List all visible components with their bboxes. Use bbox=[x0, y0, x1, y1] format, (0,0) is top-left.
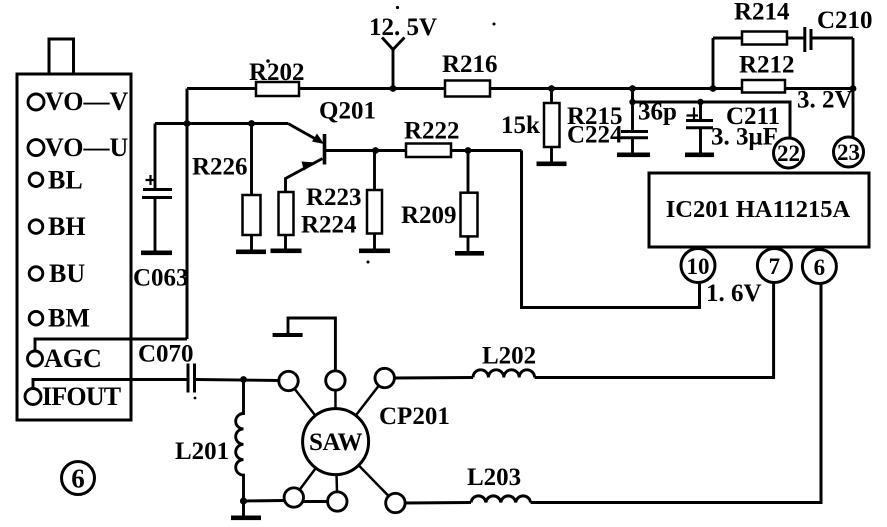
pin 23 bbox=[834, 137, 864, 167]
resistor R202 bbox=[256, 82, 299, 96]
ground 15k bbox=[537, 162, 567, 167]
IC201 box bbox=[649, 173, 869, 247]
svg-text:R214: R214 bbox=[734, 0, 790, 26]
svg-text:36p: 36p bbox=[638, 99, 677, 126]
svg-text:C063: C063 bbox=[133, 265, 189, 292]
svg-text:R224: R224 bbox=[301, 212, 357, 239]
terminal BH bbox=[29, 220, 43, 234]
SAW terminal bottom-left bbox=[284, 488, 303, 507]
svg-text:VO—V: VO—V bbox=[45, 87, 128, 116]
terminal BL bbox=[29, 173, 43, 187]
svg-text:3. 2V: 3. 2V bbox=[797, 87, 853, 114]
node dot second row left bbox=[629, 99, 635, 105]
wire AGC row bbox=[35, 339, 187, 352]
terminal VO-U bbox=[28, 140, 44, 156]
Q201 bar bbox=[323, 134, 327, 165]
terminal IFOUT bbox=[25, 389, 41, 405]
capacitor C211 3.3uF bbox=[699, 102, 702, 120]
inductor L203 bbox=[471, 496, 531, 503]
node dot R226 top bbox=[248, 120, 255, 127]
resistor R224 bbox=[279, 192, 294, 235]
SAW terminal top-left bbox=[279, 371, 298, 390]
svg-text:BH: BH bbox=[48, 212, 86, 241]
svg-text:R223: R223 bbox=[306, 184, 362, 211]
wire C070 to SAW bbox=[196, 380, 280, 381]
svg-text:22: 22 bbox=[777, 141, 800, 166]
node dot C224 bbox=[629, 85, 636, 92]
wire collector row bbox=[325, 149, 406, 152]
resistor R222 bbox=[406, 144, 451, 158]
svg-text:L201: L201 bbox=[175, 438, 229, 465]
resistor R216 bbox=[445, 81, 490, 97]
wire pin6 to SAW bottom-right bbox=[405, 501, 471, 505]
resistor 15k bbox=[550, 89, 553, 104]
ground R223 bbox=[359, 249, 390, 254]
wire R214 row bbox=[713, 37, 742, 40]
node dot L201 top bbox=[240, 376, 247, 383]
svg-text:R226: R226 bbox=[192, 154, 248, 181]
Q201 emitter diagonal with arrow bbox=[286, 159, 323, 193]
svg-text:C070: C070 bbox=[138, 341, 194, 368]
resistor R212 bbox=[742, 80, 785, 93]
wire feedback left vertical bbox=[712, 38, 715, 89]
svg-text:6: 6 bbox=[71, 464, 85, 494]
svg-text:1. 6V: 1. 6V bbox=[706, 280, 762, 307]
capacitor C063 bbox=[154, 124, 157, 189]
svg-text:7: 7 bbox=[769, 254, 781, 279]
svg-text:Q201: Q201 bbox=[319, 98, 376, 125]
wire top rail bbox=[187, 87, 853, 90]
connector tab bbox=[49, 39, 74, 74]
node dot L201 bottom bbox=[240, 497, 247, 504]
ground R209 bbox=[455, 251, 484, 256]
svg-text:VO—U: VO—U bbox=[45, 133, 128, 162]
node dot R209 top bbox=[465, 147, 472, 154]
pin 7 bbox=[757, 249, 791, 283]
resistor R214 bbox=[742, 32, 787, 45]
svg-text:R202: R202 bbox=[249, 59, 305, 86]
resistor R226 bbox=[250, 124, 253, 196]
terminal VO-V bbox=[28, 94, 44, 110]
svg-text:10: 10 bbox=[687, 254, 710, 279]
svg-text:3. 3μF: 3. 3μF bbox=[711, 124, 778, 151]
ground R226 bbox=[236, 250, 266, 255]
node dot 15k bbox=[548, 85, 555, 92]
node dot base-left bbox=[184, 120, 191, 127]
svg-text:IC201 HA11215A: IC201 HA11215A bbox=[666, 196, 851, 223]
inductor L202 bbox=[473, 370, 535, 378]
wire to pin 10 bbox=[522, 151, 700, 308]
svg-text:BL: BL bbox=[48, 166, 83, 195]
ground C211 bbox=[685, 153, 714, 158]
ground L201 bbox=[242, 501, 245, 516]
svg-text:L203: L203 bbox=[467, 464, 521, 491]
svg-text:C210: C210 bbox=[817, 7, 873, 34]
capacitor C210 bbox=[803, 27, 806, 52]
SAW spokes bbox=[289, 378, 396, 503]
SAW terminal bottom-mid bbox=[328, 492, 347, 511]
terminal BM bbox=[29, 311, 43, 325]
node dot C211 top bbox=[697, 99, 703, 105]
terminal AGC bbox=[28, 351, 43, 366]
svg-text:6: 6 bbox=[814, 255, 826, 280]
svg-text:12. 5V: 12. 5V bbox=[369, 14, 437, 41]
supply 12.5V arrow bbox=[382, 38, 405, 50]
svg-text:C224: C224 bbox=[567, 122, 623, 149]
svg-text:R209: R209 bbox=[401, 202, 457, 229]
scan specks bbox=[396, 6, 399, 9]
SAW filter CP201 body bbox=[303, 409, 369, 475]
svg-text:23: 23 bbox=[837, 140, 860, 165]
node dot right feedback bbox=[850, 85, 857, 92]
terminal BU bbox=[29, 267, 43, 281]
wire second row bbox=[633, 102, 791, 139]
capacitor C224 bbox=[631, 89, 634, 131]
svg-text:BM: BM bbox=[48, 304, 90, 333]
connector J1 box bbox=[17, 74, 131, 420]
SAW terminal top-mid bbox=[326, 371, 345, 390]
wire IFOUT row bbox=[33, 380, 187, 390]
Q201 base diagonal bbox=[288, 124, 320, 142]
svg-text:15k: 15k bbox=[501, 112, 540, 139]
ground C224 bbox=[617, 153, 650, 158]
resistor R223 bbox=[373, 151, 376, 191]
resistor R209 bbox=[467, 151, 470, 193]
SAW case ground bbox=[288, 318, 335, 372]
svg-text:AGC: AGC bbox=[44, 344, 102, 373]
svg-text:SAW: SAW bbox=[309, 429, 363, 456]
wire feedback right vertical bbox=[852, 38, 855, 138]
svg-text:IFOUT: IFOUT bbox=[42, 382, 121, 411]
ground C063 bbox=[141, 251, 172, 256]
svg-text:CP201: CP201 bbox=[379, 403, 450, 430]
SAW terminal bottom-right bbox=[386, 493, 405, 512]
wire bottom row left bbox=[244, 499, 285, 502]
SAW terminal top-right bbox=[375, 368, 394, 387]
node dot supply bbox=[390, 85, 397, 92]
wire base row bbox=[155, 122, 288, 125]
ground R224 bbox=[271, 249, 302, 254]
inductor L201 bbox=[236, 380, 244, 502]
svg-text:R212: R212 bbox=[739, 52, 795, 79]
svg-text:BU: BU bbox=[49, 259, 85, 288]
page number 6 bbox=[62, 462, 95, 495]
wire pin7 to SAW top-right bbox=[394, 376, 473, 380]
pin 22 bbox=[774, 138, 804, 168]
wire left vertical bbox=[186, 89, 189, 340]
node dot left feedback bbox=[710, 85, 717, 92]
svg-text:L202: L202 bbox=[482, 343, 536, 370]
pin 10 bbox=[681, 249, 715, 283]
svg-text:R222: R222 bbox=[404, 118, 460, 145]
node dot R223 top bbox=[372, 147, 379, 154]
pin 6 bbox=[802, 250, 836, 284]
svg-text:R216: R216 bbox=[442, 51, 498, 78]
